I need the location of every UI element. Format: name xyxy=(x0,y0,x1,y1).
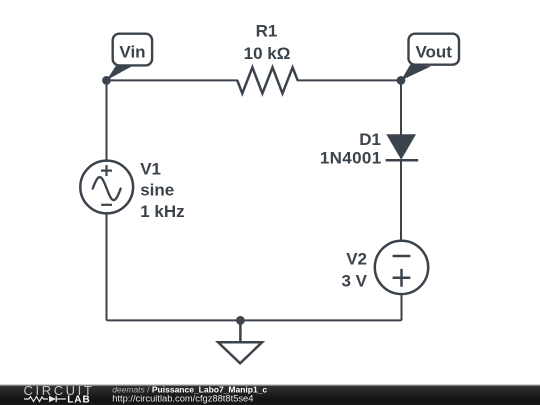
node ground junction (dot) xyxy=(236,316,245,325)
svg-text:1 kHz: 1 kHz xyxy=(140,202,184,221)
ground xyxy=(218,320,262,363)
flag Vin xyxy=(107,34,153,81)
node Vin (dot) xyxy=(102,76,111,85)
wire right vertical middle (D1 cathode to V2 top) xyxy=(400,160,402,242)
svg-text:3 V: 3 V xyxy=(341,271,367,290)
diode D1 xyxy=(320,130,418,168)
wire bottom rail xyxy=(107,319,402,321)
wire left vertical upper (Vin node to V1 top) xyxy=(106,80,108,161)
svg-text:R1: R1 xyxy=(256,22,278,41)
wire left vertical lower (V1 bottom to bottom rail) xyxy=(106,213,108,321)
wire right vertical upper (Vout node to D1 anode) xyxy=(400,80,402,136)
svg-text:sine: sine xyxy=(140,181,174,200)
svg-text:10 kΩ: 10 kΩ xyxy=(244,44,291,63)
logo resistor-diode glyph xyxy=(24,396,66,402)
node Vout (dot) xyxy=(397,76,406,85)
wire top-right (R1 to Vout node) xyxy=(297,79,401,81)
svg-text:http://circuitlab.com/cfgz88t8: http://circuitlab.com/cfgz88t8t5se4 xyxy=(112,394,253,404)
svg-text:V1: V1 xyxy=(140,159,161,178)
svg-text:Vout: Vout xyxy=(415,43,452,62)
voltage source V2 (battery) xyxy=(341,241,428,294)
svg-text:LAB: LAB xyxy=(67,395,91,405)
wire top-left (Vin node to R1) xyxy=(107,79,239,81)
footer bar background xyxy=(0,384,540,405)
voltage source V1 (sine) xyxy=(80,159,184,221)
svg-text:V2: V2 xyxy=(346,250,367,269)
wire right vertical lower (V2 bottom to bottom rail) xyxy=(401,294,403,321)
svg-text:1N4001: 1N4001 xyxy=(320,149,382,168)
flag Vout xyxy=(401,34,459,81)
resistor R1 xyxy=(237,22,297,94)
svg-text:Vin: Vin xyxy=(119,43,145,62)
svg-text:D1: D1 xyxy=(359,130,381,149)
